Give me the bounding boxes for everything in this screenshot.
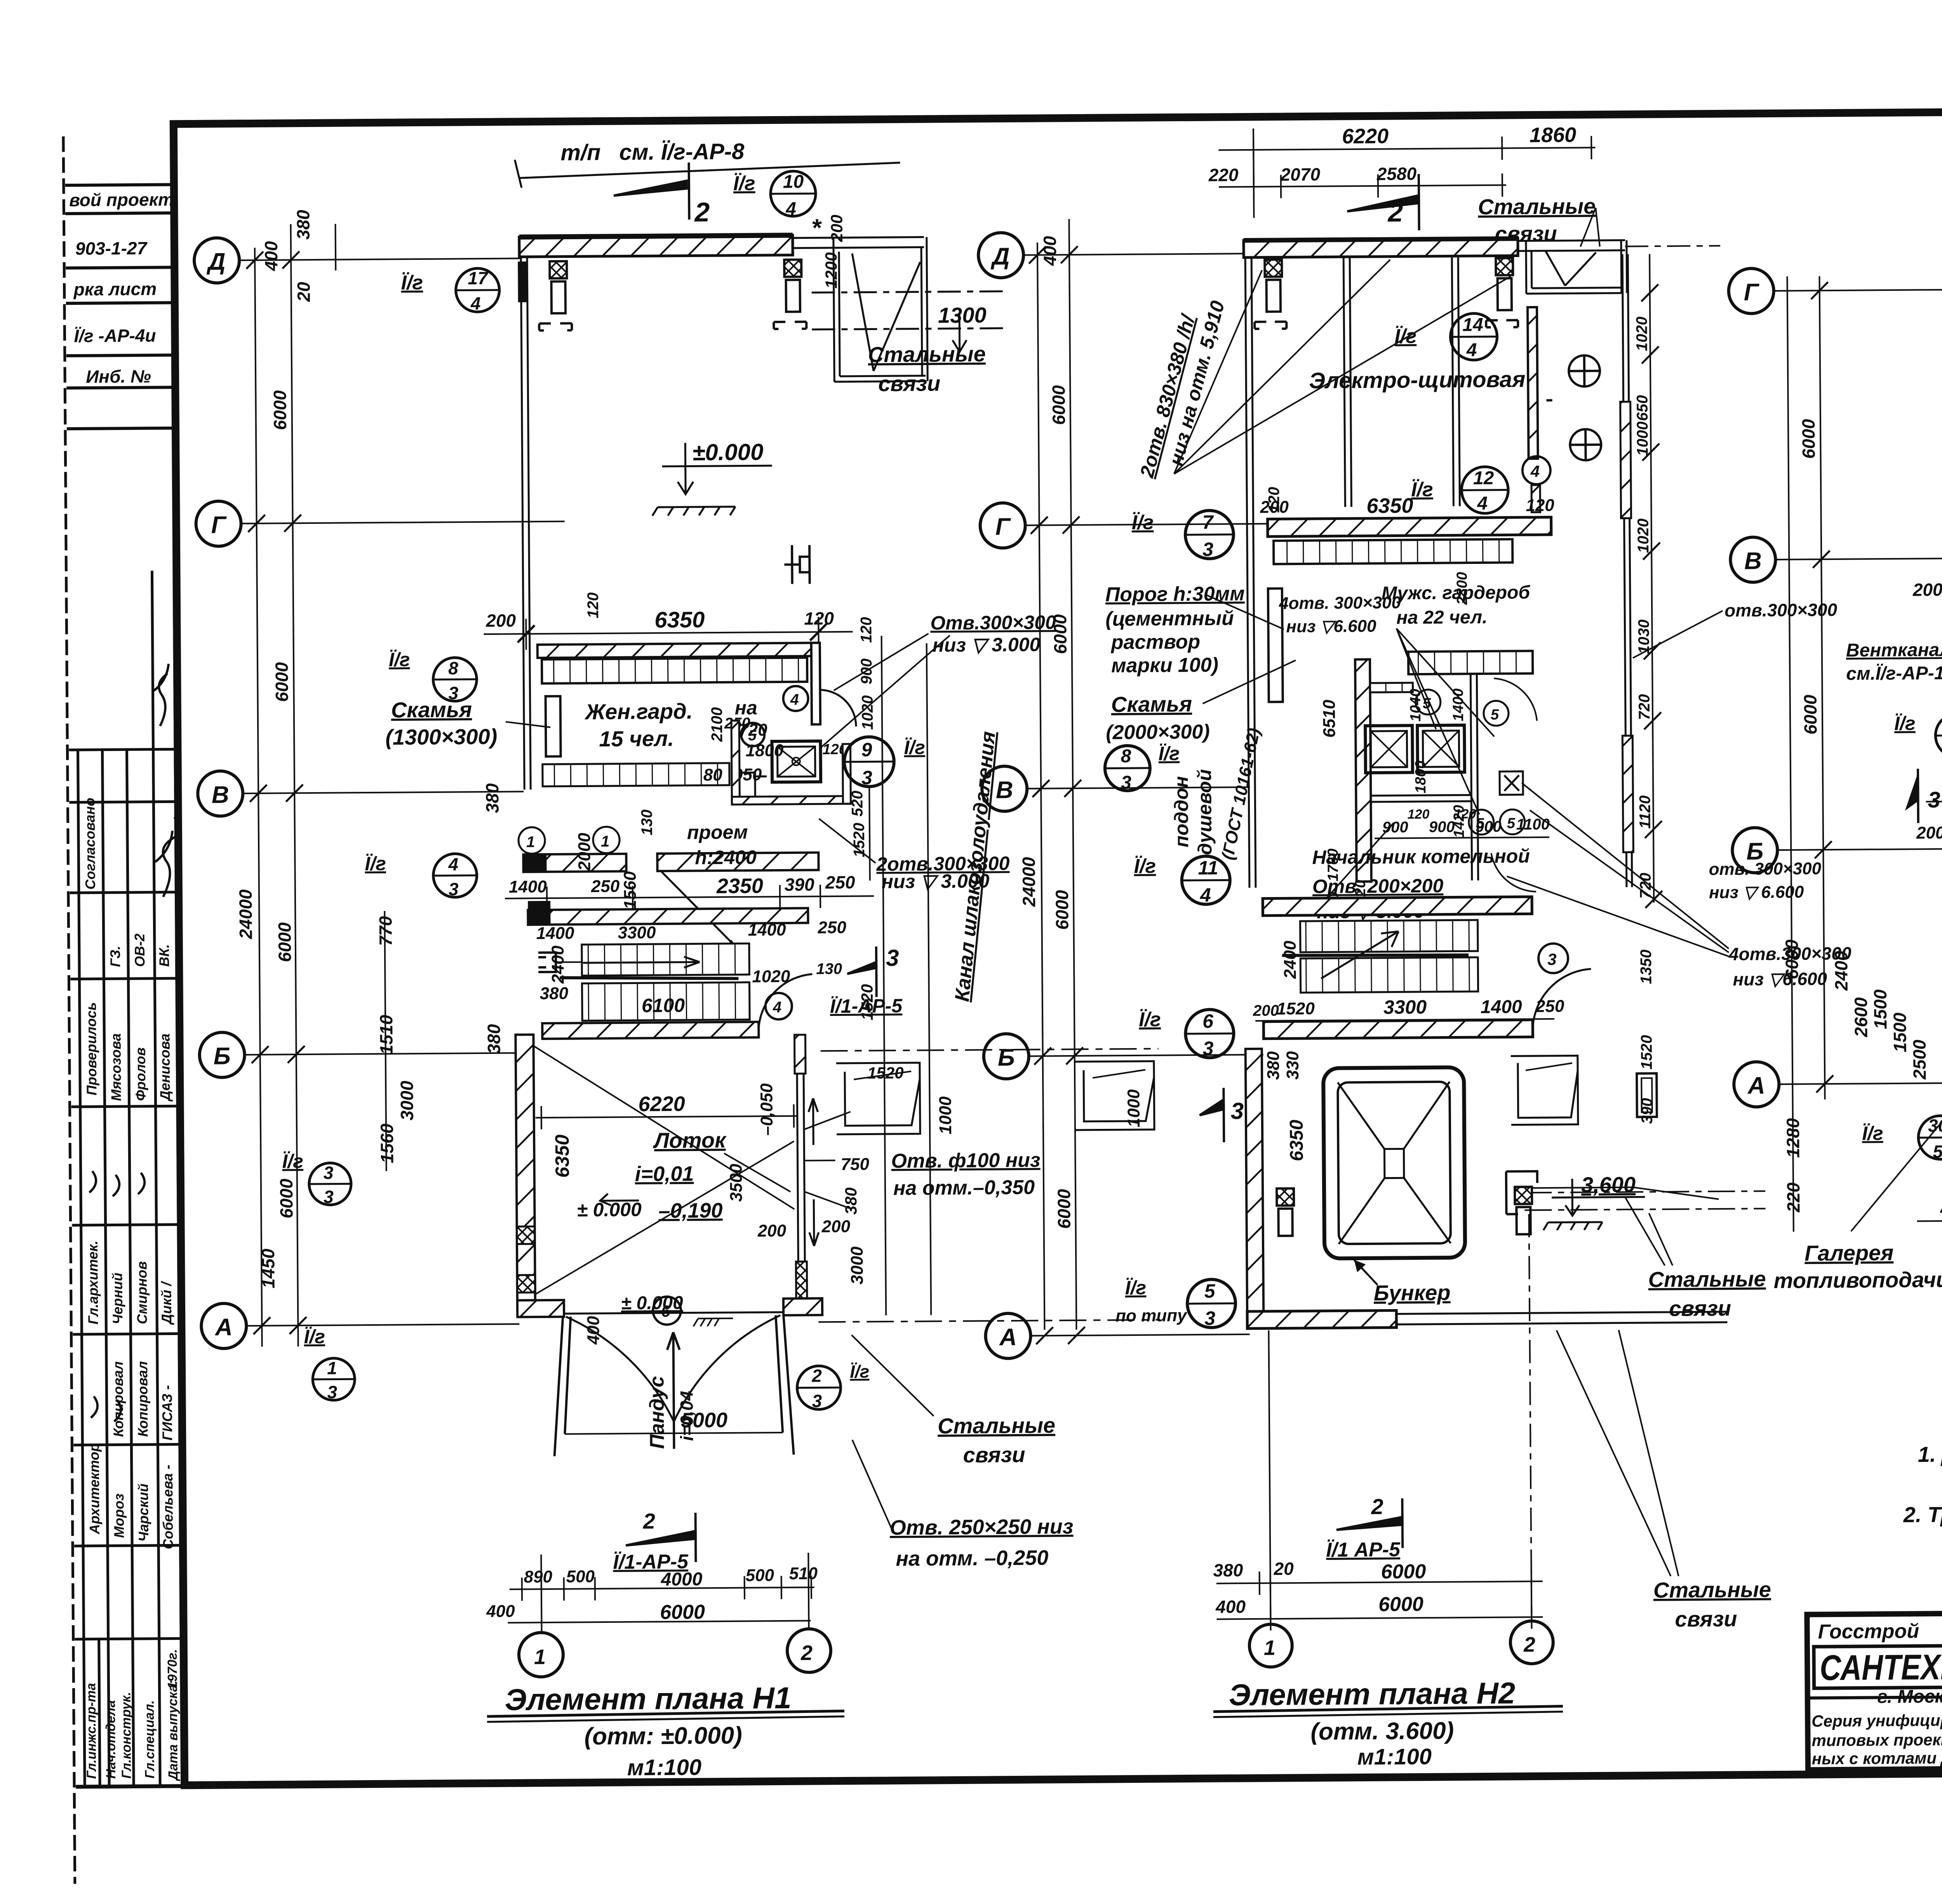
svg-text:связи: связи <box>878 371 940 396</box>
svg-text:1400: 1400 <box>1450 689 1467 722</box>
right side walls <box>1622 254 1632 887</box>
svg-text:САНТЕХПРОЕКТ: САНТЕХПРОЕКТ <box>1820 1647 1942 1688</box>
svg-text:топливоподачи: топливоподачи <box>1773 1267 1942 1293</box>
svg-text:Пандус: Пандус <box>646 1376 668 1449</box>
svg-text:3: 3 <box>1230 1098 1244 1124</box>
svg-text:6220: 6220 <box>1342 125 1389 148</box>
svg-text:ОВ-2: ОВ-2 <box>132 934 148 967</box>
bottom wall pieces + ramp <box>517 1300 564 1317</box>
svg-text:на отм.–0,350: на отм.–0,350 <box>893 1176 1035 1200</box>
svg-text:380: 380 <box>540 984 569 1003</box>
svg-text:1860: 1860 <box>1530 123 1577 147</box>
svg-text:3,600: 3,600 <box>1581 1172 1636 1197</box>
svg-text:Ї/г: Ї/г <box>904 737 925 758</box>
svg-text:6000: 6000 <box>1054 1189 1074 1229</box>
svg-text:3: 3 <box>327 1382 337 1402</box>
svg-text:Гл.конструк.: Гл.конструк. <box>119 1692 134 1779</box>
svg-text:6000: 6000 <box>1800 694 1821 734</box>
svg-text:1520: 1520 <box>1638 1035 1655 1069</box>
svg-text:Ї/г: Ї/г <box>1125 1277 1147 1299</box>
svg-text:Жен.гард.: Жен.гард. <box>584 699 693 724</box>
svg-text:120: 120 <box>1408 807 1430 822</box>
svg-text:Начальник котельной: Начальник котельной <box>1312 845 1530 868</box>
svg-text:380: 380 <box>293 210 313 240</box>
top wall hatched <box>519 235 793 257</box>
bottom wall <box>1247 1311 1396 1329</box>
svg-text:Архитектор: Архитектор <box>86 1443 103 1535</box>
svg-text:6: 6 <box>1202 1010 1214 1032</box>
svg-text:5: 5 <box>1204 1280 1216 1302</box>
flag 2 I/1-AP-5 <box>1336 1498 1403 1548</box>
kanal U-symbol at B <box>836 1063 920 1134</box>
svg-text:15 чел.: 15 чел. <box>599 726 674 751</box>
svg-text:±0.000: ±0.000 <box>692 439 764 465</box>
svg-text:2: 2 <box>811 1365 822 1386</box>
axis circles left <box>978 233 1031 1359</box>
bottom dims <box>507 1553 814 1634</box>
svg-text:1510: 1510 <box>376 1015 397 1055</box>
svg-text:1400: 1400 <box>509 877 547 897</box>
svg-text:200: 200 <box>486 610 516 631</box>
svg-text:3: 3 <box>324 1187 334 1207</box>
svg-text:6000: 6000 <box>1381 1560 1426 1583</box>
svg-text:3300: 3300 <box>618 923 656 942</box>
svg-text:Госстрой: Госстрой <box>1818 1620 1919 1643</box>
svg-text:1020: 1020 <box>1633 316 1651 351</box>
svg-text:Отв. 250×250 низ: Отв. 250×250 низ <box>890 1515 1074 1539</box>
svg-text:Д: Д <box>206 248 226 275</box>
svg-text:2600: 2600 <box>1851 997 1871 1038</box>
svg-text:2: 2 <box>642 1509 655 1533</box>
svg-text:120: 120 <box>1265 487 1282 513</box>
svg-text:низ ▽6.600: низ ▽6.600 <box>1286 617 1376 636</box>
left wall lower with hatch <box>515 1035 535 1300</box>
svg-text:24000: 24000 <box>235 889 256 940</box>
svg-text:1000: 1000 <box>1124 1089 1143 1127</box>
interior wall at B with door gap <box>523 854 626 872</box>
svg-text:3: 3 <box>812 1391 822 1411</box>
svg-text:1760: 1760 <box>1325 849 1342 882</box>
stairs block <box>528 908 808 925</box>
svg-text:250: 250 <box>1535 997 1564 1016</box>
svg-text:3000: 3000 <box>847 1246 867 1285</box>
svg-text:6000: 6000 <box>1798 419 1819 459</box>
right wall piece of garderob <box>811 643 820 724</box>
svg-text:Стальные: Стальные <box>1648 1266 1766 1292</box>
leaders to rotated text <box>1173 259 1512 474</box>
svg-text:на 22 чел.: на 22 чел. <box>1396 607 1488 628</box>
svg-text:2: 2 <box>1387 197 1403 227</box>
svg-text:Г: Г <box>1744 279 1760 306</box>
svg-text:380: 380 <box>482 783 503 814</box>
svg-text:17: 17 <box>468 268 489 288</box>
svg-text:см.Ї/г-АР-12ч: см.Ї/г-АР-12ч <box>1846 663 1942 684</box>
svg-text:500: 500 <box>745 1566 774 1585</box>
elevation 0.000 <box>652 442 772 516</box>
svg-text:1400: 1400 <box>536 924 574 943</box>
right wall of room <box>1528 307 1538 459</box>
svg-text:12: 12 <box>1473 468 1494 489</box>
mid anchor symbol <box>784 545 810 584</box>
svg-text:3: 3 <box>1202 1038 1213 1059</box>
section flag 3 left mid <box>1199 1088 1224 1142</box>
interior partitions of room <box>1343 256 1460 507</box>
anchors <box>1254 258 1518 329</box>
vent circles <box>1546 355 1601 461</box>
svg-text:200: 200 <box>1916 823 1942 842</box>
svg-text:Стальные: Стальные <box>868 341 986 367</box>
svg-text:120: 120 <box>858 617 875 643</box>
svg-text:Дикй /: Дикй / <box>158 1280 175 1325</box>
dim verticals <box>1787 276 1825 1231</box>
svg-text:4: 4 <box>1466 340 1477 360</box>
svg-text:770: 770 <box>375 916 396 946</box>
svg-text:6350: 6350 <box>1286 1120 1307 1161</box>
dim verticals <box>255 224 388 1347</box>
svg-text:Ї/г: Ї/г <box>1139 1009 1161 1031</box>
svg-text:(отм: ±0.000): (отм: ±0.000) <box>584 1722 742 1750</box>
svg-text:2400: 2400 <box>1281 941 1300 979</box>
svg-text:11: 11 <box>1198 857 1218 879</box>
svg-text:Стальные: Стальные <box>1478 194 1596 219</box>
svg-text:Стальные: Стальные <box>1653 1577 1771 1602</box>
svg-text:1300: 1300 <box>938 303 987 327</box>
svg-text:Б: Б <box>214 1043 231 1069</box>
svg-text:510: 510 <box>789 1564 818 1583</box>
svg-text:2500: 2500 <box>1909 1040 1930 1080</box>
svg-text:Дата выпуска:: Дата выпуска: <box>165 1680 181 1781</box>
svg-text:1520: 1520 <box>1277 999 1315 1019</box>
svg-text:1400: 1400 <box>748 920 786 940</box>
svg-text:3: 3 <box>886 945 899 971</box>
svg-text:типовых проектов котель-: типовых проектов котель- <box>1811 1730 1942 1749</box>
svg-text:250: 250 <box>591 877 620 896</box>
svg-text:отв. 300×300: отв. 300×300 <box>1709 859 1821 879</box>
signature squiggles <box>86 664 184 1422</box>
galereya leader <box>1850 1059 1942 1231</box>
svg-text:4: 4 <box>470 293 481 313</box>
svg-text:h:2400: h:2400 <box>695 846 757 868</box>
svg-text:1420: 1420 <box>1451 805 1468 838</box>
steel ties box top right <box>811 236 1006 382</box>
svg-text:Ї/г: Ї/г <box>401 271 423 294</box>
svg-text:220: 220 <box>1783 1182 1804 1213</box>
svg-text:–0,050: –0,050 <box>757 1083 776 1135</box>
bottom axis circles <box>519 1633 564 1677</box>
svg-text:на отм. –0,250: на отм. –0,250 <box>896 1546 1048 1570</box>
dim verticals <box>1037 219 1076 1330</box>
svg-text:низ ▽6.600: низ ▽6.600 <box>1733 969 1827 989</box>
svg-text:6000: 6000 <box>1052 890 1072 930</box>
svg-text:Г: Г <box>211 511 227 538</box>
svg-text:А: А <box>999 1324 1017 1351</box>
U duct symbol right of bunker <box>1511 1055 1578 1125</box>
svg-text:6100: 6100 <box>642 995 685 1017</box>
svg-text:Электро-щитовая: Электро-щитовая <box>1309 367 1525 393</box>
svg-text:380: 380 <box>1213 1560 1243 1581</box>
svg-text:1970г.: 1970г. <box>165 1649 180 1689</box>
svg-text:Ї/г: Ї/г <box>1862 1122 1883 1144</box>
diagonal leaders crossing room <box>534 1044 795 1211</box>
svg-text:ВК.: ВК. <box>156 944 172 967</box>
svg-text:Ї/г: Ї/г <box>1158 742 1180 764</box>
labels below wall <box>519 827 545 854</box>
svg-text:(отм. 3.600): (отм. 3.600) <box>1310 1718 1454 1745</box>
svg-text:4отв. 300×300: 4отв. 300×300 <box>1279 593 1401 613</box>
svg-text:Стальные: Стальные <box>938 1413 1055 1438</box>
svg-text:1500: 1500 <box>1890 1012 1910 1052</box>
svg-text:3300: 3300 <box>1383 996 1427 1018</box>
svg-text:отв.300×300: отв.300×300 <box>1724 600 1838 621</box>
svg-text:А: А <box>1747 1072 1765 1099</box>
svg-text:Мороз: Мороз <box>111 1494 127 1538</box>
bottom circles <box>1249 1624 1292 1667</box>
svg-text:6000: 6000 <box>274 922 295 962</box>
svg-text:Ї/г: Ї/г <box>1411 478 1433 501</box>
svg-text:20: 20 <box>294 282 314 302</box>
svg-text:3: 3 <box>1928 787 1940 812</box>
svg-text:Б: Б <box>998 1044 1015 1071</box>
thin wall continues right <box>793 237 924 238</box>
dim ticks on verticals <box>246 251 306 1334</box>
svg-text:Ї/г: Ї/г <box>365 853 386 875</box>
svg-text:Фролов: Фролов <box>132 1047 149 1101</box>
svg-text:(2000×300): (2000×300) <box>1106 721 1210 744</box>
svg-text:6350: 6350 <box>1366 494 1413 518</box>
svg-text:1120: 1120 <box>1636 795 1654 829</box>
svg-text:6000: 6000 <box>1782 939 1802 979</box>
svg-text:Ї/г: Ї/г <box>389 649 410 670</box>
svg-text:1: 1 <box>534 1645 546 1669</box>
svg-text:связи: связи <box>963 1442 1025 1467</box>
svg-text:6220: 6220 <box>638 1092 685 1116</box>
svg-text:т/п: т/п <box>560 140 601 165</box>
svg-text:8: 8 <box>1121 746 1131 767</box>
svg-text:8: 8 <box>448 658 458 678</box>
stair block <box>1263 897 1532 916</box>
section flag 3 left <box>1907 769 1918 823</box>
bathroom walls <box>731 721 740 804</box>
svg-text:1520: 1520 <box>858 984 877 1021</box>
svg-text:380: 380 <box>842 1188 860 1215</box>
wall at G <box>1268 517 1551 537</box>
svg-text:200: 200 <box>1912 579 1942 600</box>
svg-text:5000: 5000 <box>681 1408 728 1432</box>
svg-text:4: 4 <box>1200 884 1211 906</box>
svg-text:Черний: Черний <box>109 1273 125 1325</box>
svg-text:220: 220 <box>1208 165 1239 185</box>
svg-text:Ї/г: Ї/г <box>1894 713 1916 734</box>
dim 6350 row <box>484 617 853 650</box>
svg-text:ГИСАЗ -: ГИСАЗ - <box>159 1385 175 1441</box>
svg-text:2580: 2580 <box>1376 163 1417 184</box>
svg-text:390: 390 <box>785 874 815 895</box>
svg-text:Ї/г: Ї/г <box>282 1150 303 1172</box>
svg-text:Ї/г: Ї/г <box>1394 325 1416 348</box>
svg-text:250: 250 <box>825 872 856 893</box>
left wall of plan1 <box>521 257 531 789</box>
svg-text:Ї/г: Ї/г <box>850 1361 869 1382</box>
svg-text:Серия унифицированных: Серия унифицированных <box>1811 1711 1942 1730</box>
svg-text:(цементный: (цементный <box>1105 607 1234 630</box>
right dim chain <box>1650 254 1654 902</box>
axis circles left <box>194 238 247 1349</box>
svg-text:Лоток: Лоток <box>653 1128 727 1153</box>
svg-text:6000: 6000 <box>660 1601 705 1624</box>
svg-text:Денисова: Денисова <box>157 1033 173 1102</box>
svg-text:2: 2 <box>694 197 710 227</box>
svg-text:5: 5 <box>1491 707 1499 723</box>
svg-text:Бункер: Бункер <box>1374 1280 1451 1305</box>
svg-text:рка лист: рка лист <box>73 279 157 299</box>
svg-text:200: 200 <box>757 1221 787 1240</box>
svg-text:1: 1 <box>1264 1636 1276 1660</box>
svg-text:3: 3 <box>861 767 872 788</box>
svg-text:4: 4 <box>790 691 799 708</box>
svg-text:Гл.инжс.пр-та: Гл.инжс.пр-та <box>84 1683 99 1779</box>
anchors top <box>539 260 806 331</box>
lower left wall <box>1246 1049 1264 1328</box>
svg-text:500: 500 <box>566 1567 595 1586</box>
svg-text:890: 890 <box>524 1567 552 1586</box>
svg-text:250: 250 <box>817 918 846 937</box>
svg-text:7: 7 <box>1202 511 1214 533</box>
svg-text:3000: 3000 <box>397 1080 417 1120</box>
svg-text:2: 2 <box>1523 1633 1535 1656</box>
garderob rack band <box>1408 651 1533 674</box>
threshold bar <box>1268 588 1283 702</box>
svg-text:1560: 1560 <box>621 871 640 909</box>
svg-text:1800: 1800 <box>1413 760 1429 793</box>
svg-text:В: В <box>1744 548 1762 574</box>
svg-text:Скамья: Скамья <box>1111 692 1192 716</box>
svg-text:2350: 2350 <box>716 874 764 898</box>
section flag 2 top <box>613 163 689 220</box>
svg-text:400: 400 <box>486 1602 515 1621</box>
svg-text:903-1-27: 903-1-27 <box>75 238 148 259</box>
svg-text:Галерея: Галерея <box>1805 1240 1893 1266</box>
svg-text:душевой: душевой <box>1194 769 1216 855</box>
svg-text:9: 9 <box>861 739 872 760</box>
svg-text:Отв. ф100 низ: Отв. ф100 низ <box>891 1149 1040 1173</box>
flag 2/3 right of ramp <box>797 1366 841 1410</box>
svg-text:низ ▽ 6.600: низ ▽ 6.600 <box>1709 883 1804 902</box>
svg-text:2: 2 <box>800 1641 813 1664</box>
bathroom cluster <box>1355 659 1371 882</box>
L steel ties box right <box>1526 240 1627 294</box>
flag 2 / I1-AP-5 below ramp <box>626 1513 696 1562</box>
svg-text:А: А <box>214 1314 233 1341</box>
svg-text:1520: 1520 <box>851 823 868 857</box>
svg-text:2. Трансформаторная подстанция: 2. Трансформаторная подстанция у оси„D“у… <box>1903 1499 1942 1527</box>
svg-text:4: 4 <box>773 999 782 1016</box>
svg-text:80: 80 <box>703 765 723 784</box>
svg-text:520: 520 <box>849 791 866 817</box>
svg-text:Инб. №: Инб. № <box>86 366 151 387</box>
svg-text:В: В <box>212 781 229 808</box>
svg-text:2800: 2800 <box>1454 572 1471 605</box>
svg-text:4: 4 <box>1477 493 1488 514</box>
svg-text:1560: 1560 <box>377 1123 397 1163</box>
svg-text:марки 100): марки 100) <box>1111 654 1218 677</box>
top dims <box>1218 126 1596 218</box>
svg-text:6000: 6000 <box>271 662 292 702</box>
garderob top wall <box>538 643 811 658</box>
svg-text:30: 30 <box>1928 1115 1942 1135</box>
svg-text:130: 130 <box>639 809 656 835</box>
top wall <box>1244 238 1518 257</box>
svg-text:6000: 6000 <box>1378 1593 1423 1616</box>
svg-text:Д: Д <box>990 243 1009 270</box>
svg-text:3: 3 <box>448 683 458 703</box>
svg-text:200: 200 <box>1253 1002 1279 1019</box>
svg-text:1280: 1280 <box>1783 1118 1803 1158</box>
svg-text:вой проект: вой проект <box>69 189 174 210</box>
svg-text:24000: 24000 <box>1018 857 1039 907</box>
bench <box>546 696 561 756</box>
svg-text:400: 400 <box>1040 236 1060 266</box>
bottom dims <box>1214 1214 1543 1631</box>
svg-text:Согласовано: Согласовано <box>82 798 98 890</box>
plan titles <box>484 1300 1942 1781</box>
svg-text:900: 900 <box>1476 818 1502 835</box>
svg-text:4: 4 <box>1530 462 1540 480</box>
svg-text:связи: связи <box>1675 1607 1737 1631</box>
leaders from 4otv <box>1319 628 1495 905</box>
svg-text:6000: 6000 <box>1048 385 1069 425</box>
svg-text:1000: 1000 <box>936 1096 955 1135</box>
steel ties bottom right dash-dots <box>1517 1186 1765 1210</box>
svg-text:Вентканалы: Вентканалы <box>1846 640 1942 661</box>
svg-text:Смирнов: Смирнов <box>134 1261 150 1324</box>
lower sidebar table <box>68 570 184 1787</box>
svg-text:проем: проем <box>687 821 748 843</box>
svg-text:1020: 1020 <box>1635 518 1652 553</box>
svg-text:поддон: поддон <box>1170 776 1192 847</box>
svg-text:6350: 6350 <box>551 1134 573 1178</box>
ramp <box>553 1315 794 1456</box>
second rack band <box>543 763 729 786</box>
flag 8/3 <box>1105 746 1150 791</box>
svg-text:В: В <box>996 777 1013 803</box>
3600 elevation <box>1543 1178 1645 1230</box>
svg-text:3: 3 <box>1547 950 1557 969</box>
svg-text:3: 3 <box>1204 1308 1215 1329</box>
svg-text:1: 1 <box>526 833 535 850</box>
svg-text:2100: 2100 <box>708 707 726 742</box>
svg-text:720: 720 <box>1636 694 1653 720</box>
svg-text:м1:100: м1:100 <box>1357 1744 1432 1770</box>
svg-text:1450: 1450 <box>258 1248 278 1288</box>
svg-text:380: 380 <box>1264 1051 1283 1080</box>
svg-text:380: 380 <box>484 1024 504 1054</box>
svg-text:6510: 6510 <box>1320 699 1339 738</box>
svg-text:6350: 6350 <box>654 607 705 633</box>
svg-text:1: 1 <box>327 1358 337 1378</box>
svg-text:900: 900 <box>1382 819 1408 836</box>
svg-text:2400: 2400 <box>1831 951 1852 991</box>
svg-text:1000: 1000 <box>1634 421 1651 456</box>
svg-text:Ї/г: Ї/г <box>304 1326 325 1348</box>
left wall <box>1245 257 1256 888</box>
axis lines <box>1023 254 1277 1336</box>
svg-text:4: 4 <box>448 854 458 874</box>
svg-text:м1:100: м1:100 <box>627 1754 702 1780</box>
svg-text:1350: 1350 <box>1637 949 1655 984</box>
svg-text:1400: 1400 <box>1481 996 1522 1017</box>
svg-text:120: 120 <box>1526 496 1554 515</box>
svg-text:г. Москва: г. Москва <box>1878 1686 1942 1708</box>
